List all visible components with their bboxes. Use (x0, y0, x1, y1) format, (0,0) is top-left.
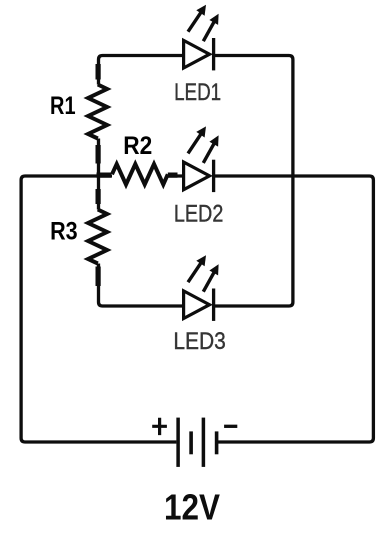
svg-text:R3: R3 (50, 217, 78, 245)
svg-text:LED2: LED2 (174, 201, 224, 228)
svg-text:LED1: LED1 (174, 79, 221, 106)
svg-text:R1: R1 (50, 92, 76, 120)
svg-text:LED3: LED3 (173, 328, 226, 355)
svg-text:R2: R2 (123, 132, 152, 160)
svg-text:12V: 12V (164, 487, 220, 528)
